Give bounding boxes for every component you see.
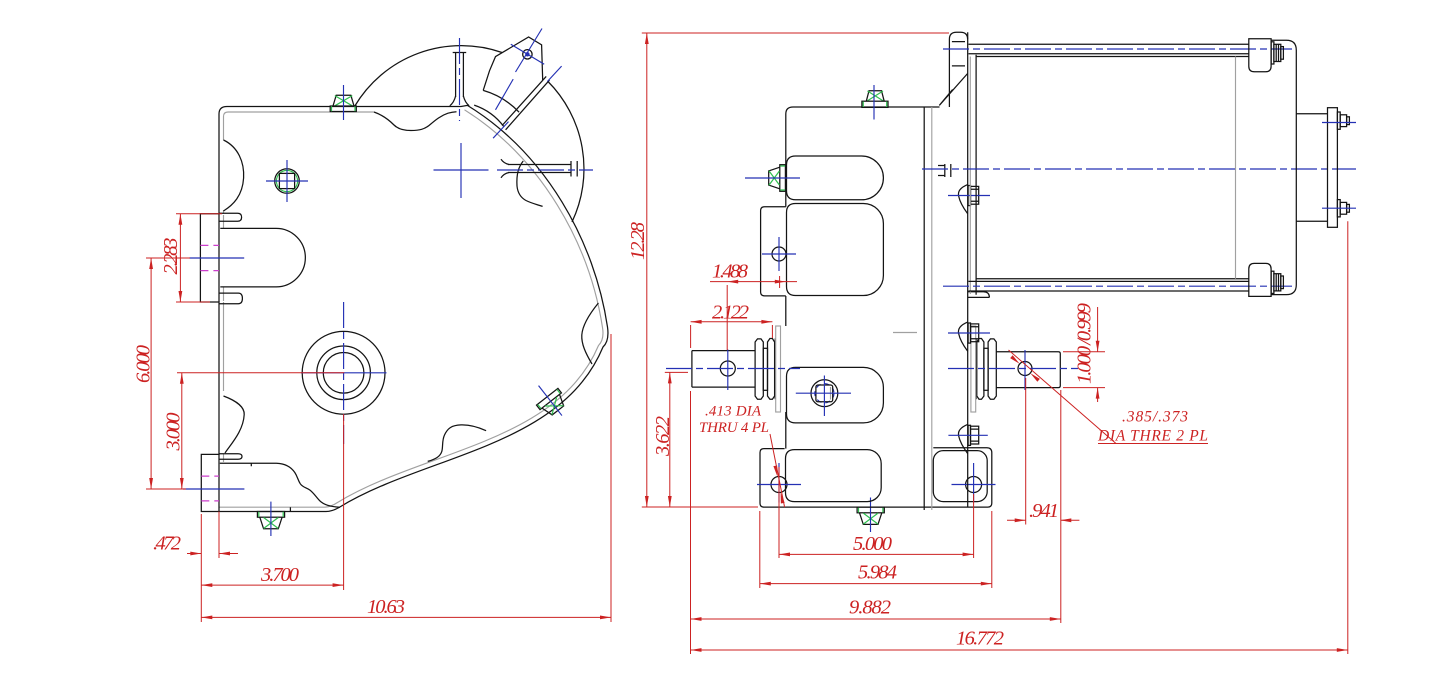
pentagon hole <box>523 50 532 59</box>
upper tab finger 1 <box>219 213 242 221</box>
tie rod centerlines <box>943 48 1292 50</box>
plate outline (front view) <box>200 105 608 511</box>
lower tab finger <box>219 454 242 459</box>
gear vertical centerline top <box>459 38 461 121</box>
diagonal strap lines <box>502 76 549 129</box>
bottom tie rod <box>969 281 1250 291</box>
svg-text:2.122: 2.122 <box>712 302 749 324</box>
svg-text:5.984: 5.984 <box>858 562 897 584</box>
bend relief bump lower-left <box>224 396 245 453</box>
top rib <box>453 53 467 98</box>
top tie rod <box>969 44 1250 54</box>
side bottom green bolt <box>857 507 884 513</box>
right rib <box>508 161 577 177</box>
housing top ear <box>949 32 967 107</box>
FRONT VIEW <box>183 29 608 537</box>
motor left face <box>975 55 977 295</box>
dim 5.000 <box>779 467 974 558</box>
bottom bolt flange <box>257 512 284 518</box>
dim 2.122 <box>691 285 773 350</box>
motor end bell <box>1271 40 1296 294</box>
motor can <box>976 57 1249 279</box>
housing top gussets <box>939 74 967 106</box>
pentagon bracket tab <box>483 37 543 90</box>
plate inner thickness line (gray) <box>224 112 375 140</box>
bottom bolt head <box>260 517 282 529</box>
side tab hole crosshair <box>762 237 796 271</box>
magenta hidden lines lower tab <box>201 476 219 501</box>
cover left face line segments <box>785 114 787 449</box>
svg-text:.413 DIA: .413 DIA <box>705 404 762 420</box>
top edge bend wave <box>374 112 457 131</box>
hub crosshair <box>796 376 851 417</box>
side tab (upper left) <box>761 207 786 296</box>
cover band B2 <box>787 204 884 296</box>
square hub circle <box>811 380 838 407</box>
bend wave on right edge B <box>582 303 599 364</box>
dim 3.700 <box>201 414 343 590</box>
dim 1.488 <box>710 276 797 288</box>
svg-text:3.700: 3.700 <box>260 564 299 586</box>
svg-text:9.882: 9.882 <box>849 597 891 619</box>
svg-text:10.63: 10.63 <box>367 596 405 618</box>
connector plate <box>1328 108 1338 228</box>
upper tab finger 2 <box>219 293 242 304</box>
upper tab centerline <box>189 257 244 259</box>
gear center crosshair <box>434 143 489 198</box>
left shaft cross hole <box>720 361 735 376</box>
dim 3.622 <box>665 372 688 507</box>
right shaft cross hole <box>1018 362 1032 376</box>
pie slice arc 2 <box>474 105 504 126</box>
left collar (rings and washer) <box>755 326 780 412</box>
rib edge-on tick <box>938 164 951 177</box>
left shaft <box>692 351 755 388</box>
svg-text:.941: .941 <box>1029 500 1059 522</box>
connector bolt bottom <box>1337 200 1340 217</box>
lower-left inner pocket contour <box>220 463 340 507</box>
strap end tick upper <box>547 66 561 81</box>
mounting plate edge-on <box>923 107 925 510</box>
top bolt centerline <box>343 85 345 120</box>
svg-text:1.488: 1.488 <box>712 261 749 283</box>
right collar (mirrored) <box>971 326 996 412</box>
svg-text:THRU 4 PL: THRU 4 PL <box>699 420 769 436</box>
gear housing big arc <box>355 46 503 107</box>
center hole crosshair <box>301 372 387 374</box>
center hole circles <box>302 331 385 414</box>
bottom bolt centerline <box>270 502 272 536</box>
svg-text:.472: .472 <box>153 533 181 555</box>
svg-text:6.000: 6.000 <box>133 345 155 383</box>
motor centerline <box>922 168 1356 170</box>
dim 10.63 <box>201 334 611 622</box>
motor can seam <box>1235 57 1237 279</box>
bottom rod nut <box>1271 271 1274 293</box>
svg-text:12.28: 12.28 <box>627 221 649 260</box>
gear horizontal centerline right <box>497 169 593 171</box>
strap end tick lower <box>493 122 508 139</box>
dim 5.984 <box>760 511 992 588</box>
side left green bolt <box>769 165 786 192</box>
motor face bolts <box>958 424 978 453</box>
svg-text:3.622: 3.622 <box>652 416 674 457</box>
dim .472 <box>187 512 238 559</box>
housing bottom ledge <box>968 292 990 298</box>
dim 6.000 <box>146 258 190 489</box>
dim 3.000 <box>177 373 344 489</box>
dim .941 <box>1007 378 1079 623</box>
shaft centerline <box>666 368 800 370</box>
top bolt head <box>333 95 354 106</box>
side top green bolt <box>866 91 884 102</box>
bend wave on lower edge C <box>428 425 486 462</box>
bend relief bump upper-left <box>224 140 244 211</box>
dim 12.28 <box>642 33 949 507</box>
connector box <box>1296 114 1327 222</box>
foot hole left <box>771 477 787 493</box>
cover band B3 <box>787 367 884 423</box>
top bolt flange <box>330 106 356 112</box>
hidden edge gray <box>893 332 917 334</box>
svg-text:3.000: 3.000 <box>163 413 185 452</box>
SIDE VIEW <box>666 32 1356 532</box>
plate left edge inner line <box>223 210 225 462</box>
bottom rod bracket <box>1249 263 1271 296</box>
cover band B1 <box>787 156 884 200</box>
side tab hole <box>772 247 786 261</box>
housing face line <box>967 32 969 507</box>
bend wave on right edge A <box>517 161 543 206</box>
svg-text:2.283: 2.283 <box>160 238 182 275</box>
dim 9.882 <box>691 391 1061 623</box>
svg-text:5.000: 5.000 <box>853 533 892 555</box>
square hub bolt circle (blue dashed) <box>815 384 834 403</box>
upper tab U pocket <box>220 228 305 287</box>
foot inner contour left <box>786 450 882 502</box>
edge bolt (lower right diagonal) <box>528 377 573 424</box>
right shaft <box>996 352 1060 388</box>
square hub square hole <box>816 385 833 402</box>
connector bolt top <box>1337 112 1340 129</box>
gearbox cover top edge <box>786 107 940 114</box>
lower tab centerline <box>183 488 244 490</box>
pentagon hole centerlines <box>511 29 544 73</box>
svg-text:1.000 /0.999: 1.000 /0.999 <box>1074 303 1096 384</box>
foot outline <box>760 448 992 507</box>
dim 16.772 <box>691 221 1348 654</box>
svg-text:.385/.373: .385/.373 <box>1122 409 1188 426</box>
foot inner contour right <box>933 451 987 502</box>
top rod nut <box>1271 42 1274 64</box>
dim 1.000/0.999 <box>1063 307 1105 402</box>
square hole with circle <box>275 169 300 194</box>
magenta hidden lines upper tab <box>200 245 219 270</box>
strap centerline <box>496 79 514 110</box>
square hole crosshair <box>266 160 308 202</box>
pocket seam ticks <box>251 463 290 511</box>
svg-text:16.772: 16.772 <box>956 628 1004 650</box>
dim 2.283 <box>176 214 222 302</box>
plate edge lines through tab regions <box>218 214 220 512</box>
foot hole right <box>966 477 982 493</box>
top rod bracket <box>1249 39 1271 72</box>
pie slice arc 1 <box>483 90 519 112</box>
